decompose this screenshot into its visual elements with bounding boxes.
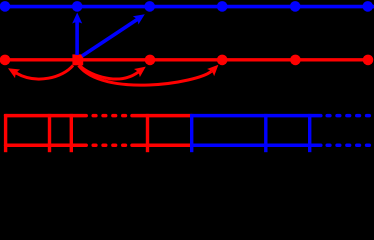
red bottom rail solid part 1 — [6, 144, 87, 148]
blue tick t5 — [264, 114, 267, 152]
blue top rail dashed — [327, 114, 369, 118]
red top rail dotted part — [93, 114, 125, 118]
blue lattice point b5 — [363, 1, 374, 12]
blue diagonal arrow square to b2 — [82, 10, 148, 56]
red bottom rail solid part 2 — [132, 144, 192, 148]
red lattice point r0 — [0, 55, 10, 66]
blue bottom rail solid — [192, 144, 321, 148]
blue vertical arrow square to b1 — [72, 13, 82, 56]
red lattice point r3 — [217, 55, 228, 66]
red tick t3 — [146, 114, 149, 152]
red arc square to r2 — [80, 65, 138, 79]
red lattice point r4 — [290, 55, 301, 66]
blue lattice point b2 — [144, 1, 155, 12]
red lattice point r2 — [145, 55, 156, 66]
blue top rail solid — [192, 114, 321, 118]
blue lattice line (top number line) — [0, 5, 374, 9]
red tick t0 — [4, 114, 7, 152]
arrowhead to r2 — [134, 63, 149, 78]
blue lattice point b0 — [0, 1, 10, 12]
red lattice point r5 — [363, 55, 374, 66]
blue tick t6 — [308, 114, 311, 152]
blue lattice point b1 — [72, 1, 83, 12]
red tick t1 — [48, 114, 51, 152]
blue lattice point b4 — [290, 1, 301, 12]
blue tick t4 (transition) — [190, 114, 193, 152]
red bottom rail dotted part — [93, 144, 125, 148]
red arc square to r3 (long) — [79, 66, 212, 86]
red tick t2 — [70, 114, 73, 152]
arrowhead to r3 — [207, 61, 222, 76]
arrowhead to r0 — [6, 64, 21, 78]
blue bottom rail dashed — [327, 144, 369, 148]
red lattice line (middle number line) — [0, 58, 373, 61]
blue lattice point b3 — [217, 1, 228, 12]
bottom tiling: red top rail solid part 1 — [6, 114, 87, 118]
red arc square to r0 (left) — [16, 65, 73, 79]
red top rail solid part 2 — [132, 114, 192, 118]
red marked square node — [72, 54, 83, 65]
